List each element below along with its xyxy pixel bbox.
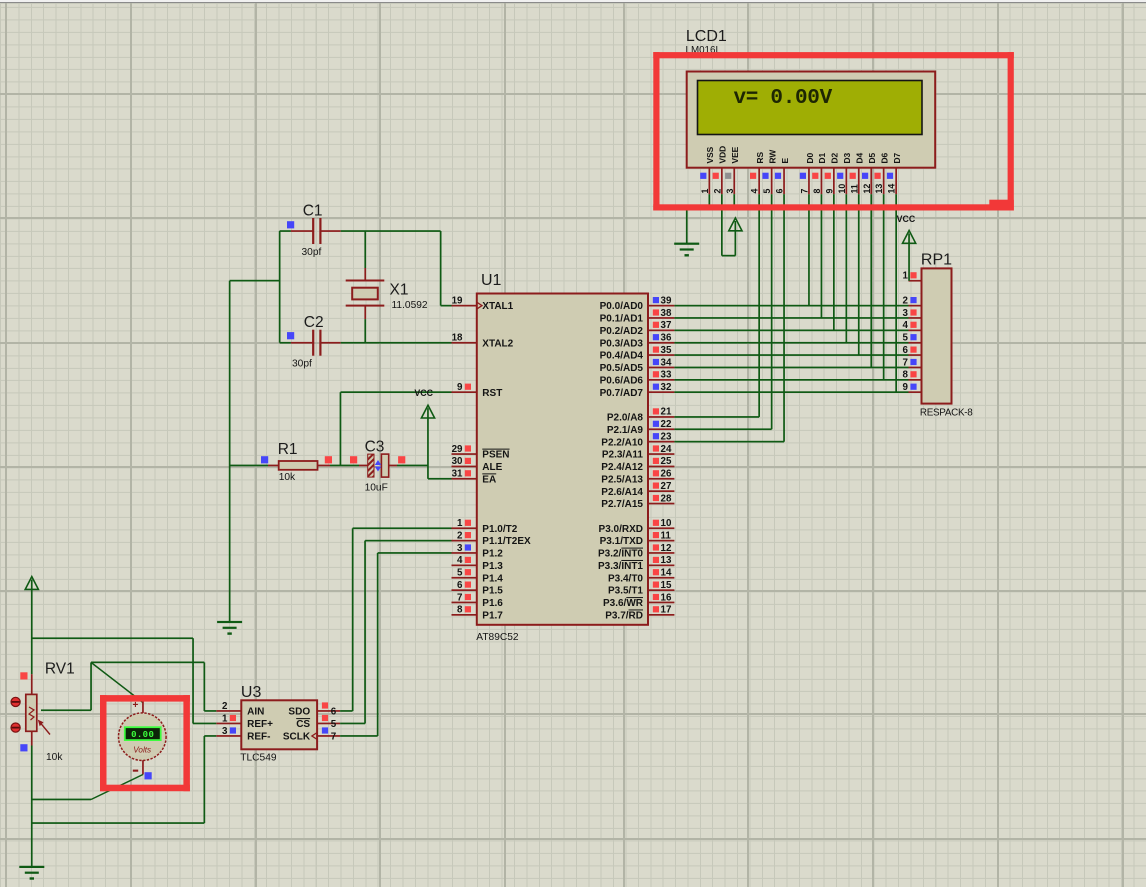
svg-text:3: 3 [222, 726, 228, 737]
svg-text:32: 32 [661, 382, 672, 393]
svg-text:5: 5 [331, 719, 337, 730]
svg-text:D0: D0 [805, 152, 815, 163]
svg-text:18: 18 [452, 333, 463, 344]
svg-text:8: 8 [812, 189, 822, 194]
svg-text:31: 31 [452, 469, 463, 480]
svg-text:0.00: 0.00 [131, 730, 154, 740]
svg-text:RW: RW [767, 150, 777, 164]
svg-text:10k: 10k [46, 752, 63, 763]
svg-text:28: 28 [661, 493, 672, 504]
svg-text:P1.6: P1.6 [482, 598, 503, 609]
svg-text:SCLK: SCLK [283, 732, 311, 743]
svg-text:2: 2 [222, 701, 228, 712]
svg-text:24: 24 [661, 444, 672, 455]
svg-text:19: 19 [452, 295, 463, 306]
svg-text:C2: C2 [304, 314, 324, 331]
svg-text:R1: R1 [278, 441, 298, 458]
svg-text:P2.1/A9: P2.1/A9 [607, 425, 644, 436]
svg-text:7: 7 [331, 731, 337, 742]
svg-text:P0.4/AD4: P0.4/AD4 [600, 351, 644, 362]
svg-text:P0.7/AD7: P0.7/AD7 [600, 388, 644, 399]
svg-text:XTAL2: XTAL2 [482, 338, 513, 349]
svg-text:34: 34 [661, 357, 672, 368]
svg-text:D7: D7 [892, 152, 902, 163]
svg-text:36: 36 [661, 333, 672, 344]
svg-text:6: 6 [457, 580, 463, 591]
svg-text:6: 6 [775, 189, 785, 194]
svg-text:P0.5/AD5: P0.5/AD5 [600, 363, 644, 374]
svg-text:AIN: AIN [247, 707, 264, 718]
svg-text:7: 7 [903, 357, 909, 368]
svg-text:5: 5 [762, 189, 772, 194]
svg-text:EA: EA [482, 474, 496, 485]
svg-text:3: 3 [457, 543, 463, 554]
svg-text:23: 23 [661, 431, 672, 442]
svg-text:P1.2: P1.2 [482, 549, 503, 560]
svg-text:P1.0/T2: P1.0/T2 [482, 524, 517, 535]
svg-text:22: 22 [661, 419, 672, 430]
svg-text:1: 1 [700, 189, 710, 194]
svg-text:D6: D6 [880, 152, 890, 163]
svg-text:16: 16 [661, 592, 672, 603]
svg-text:30pf: 30pf [292, 359, 312, 370]
svg-text:P3.5/T1: P3.5/T1 [608, 586, 643, 597]
svg-text:P3.4/T0: P3.4/T0 [608, 573, 643, 584]
svg-text:2: 2 [903, 295, 909, 306]
svg-text:REF+: REF+ [247, 719, 273, 730]
svg-text:P0.0/AD0: P0.0/AD0 [600, 301, 644, 312]
svg-text:VDD: VDD [718, 146, 728, 164]
svg-text:17: 17 [661, 605, 672, 616]
svg-text:7: 7 [457, 592, 463, 603]
svg-text:P0.2/AD2: P0.2/AD2 [600, 326, 644, 337]
svg-text:12: 12 [862, 184, 872, 194]
svg-text:9: 9 [903, 382, 909, 393]
svg-text:P2.4/A12: P2.4/A12 [601, 462, 643, 473]
svg-text:P1.7: P1.7 [482, 610, 503, 621]
svg-text:8: 8 [903, 370, 909, 381]
svg-text:13: 13 [874, 184, 884, 194]
svg-text:P2.7/A15: P2.7/A15 [601, 499, 643, 510]
svg-text:10uF: 10uF [365, 483, 388, 494]
svg-text:D5: D5 [867, 152, 877, 163]
svg-text:10: 10 [837, 184, 847, 194]
svg-text:P2.5/A13: P2.5/A13 [601, 474, 643, 485]
svg-text:VCC: VCC [414, 388, 433, 398]
svg-text:REF-: REF- [247, 732, 270, 743]
svg-text:U1: U1 [481, 272, 502, 289]
svg-text:P3.6/WR: P3.6/WR [603, 598, 644, 609]
svg-text:14: 14 [661, 568, 672, 579]
svg-text:D2: D2 [830, 152, 840, 163]
svg-text:RESPACK-8: RESPACK-8 [920, 408, 973, 419]
svg-text:7: 7 [800, 189, 810, 194]
svg-text:3: 3 [903, 308, 909, 319]
svg-text:VCC: VCC [897, 214, 916, 224]
svg-text:D4: D4 [855, 152, 865, 163]
svg-text:XTAL1: XTAL1 [482, 301, 513, 312]
svg-text:21: 21 [661, 407, 672, 418]
svg-text:X1: X1 [390, 282, 409, 299]
svg-text:39: 39 [661, 295, 672, 306]
svg-text:11: 11 [849, 184, 859, 193]
svg-text:2: 2 [457, 530, 463, 541]
svg-text:P0.1/AD1: P0.1/AD1 [600, 314, 644, 325]
svg-text:P1.4: P1.4 [482, 573, 503, 584]
svg-text:38: 38 [661, 308, 672, 319]
svg-text:P2.6/A14: P2.6/A14 [601, 487, 643, 498]
svg-text:RS: RS [755, 151, 765, 163]
svg-text:P1.5: P1.5 [482, 586, 503, 597]
svg-text:P3.0/RXD: P3.0/RXD [599, 524, 643, 535]
svg-text:P0.3/AD3: P0.3/AD3 [600, 338, 644, 349]
svg-text:25: 25 [661, 456, 672, 467]
svg-text:P2.2/A10: P2.2/A10 [601, 437, 643, 448]
svg-text:AT89C52: AT89C52 [476, 632, 519, 643]
svg-text:VEE: VEE [730, 146, 740, 163]
svg-text:P0.6/AD6: P0.6/AD6 [600, 375, 644, 386]
svg-text:C1: C1 [303, 203, 323, 220]
svg-text:35: 35 [661, 345, 672, 356]
svg-text:LCD1: LCD1 [686, 28, 727, 45]
svg-text:P3.3/INT1: P3.3/INT1 [598, 561, 643, 572]
svg-text:2: 2 [712, 189, 722, 194]
svg-text:12: 12 [661, 543, 672, 554]
svg-text:1: 1 [457, 518, 463, 529]
svg-text:13: 13 [661, 555, 672, 566]
svg-text:P2.3/A11: P2.3/A11 [602, 450, 644, 461]
svg-text:PSEN: PSEN [482, 450, 509, 461]
svg-text:4: 4 [903, 320, 909, 331]
svg-text:D1: D1 [817, 152, 827, 163]
svg-text:P1.3: P1.3 [482, 561, 503, 572]
svg-text:RST: RST [482, 388, 502, 399]
svg-text:8: 8 [457, 605, 463, 616]
svg-text:SDO: SDO [288, 707, 310, 718]
svg-text:30pf: 30pf [302, 247, 322, 258]
svg-text:C3: C3 [365, 439, 385, 456]
svg-text:Volts: Volts [133, 746, 151, 755]
svg-text:11.0592: 11.0592 [392, 300, 428, 311]
svg-text:30: 30 [452, 456, 463, 467]
svg-text:P1.1/T2EX: P1.1/T2EX [482, 536, 531, 547]
svg-text:37: 37 [661, 320, 672, 331]
svg-text:26: 26 [661, 469, 672, 480]
svg-text:15: 15 [661, 580, 672, 591]
svg-text:9: 9 [824, 189, 834, 194]
svg-text:RV1: RV1 [45, 661, 75, 678]
svg-text:6: 6 [331, 706, 337, 717]
svg-text:RP1: RP1 [921, 251, 952, 268]
svg-text:1: 1 [222, 713, 228, 724]
svg-text:27: 27 [661, 481, 672, 492]
svg-text:3: 3 [725, 189, 735, 194]
svg-text:E: E [780, 158, 790, 164]
svg-text:P3.2/INT0: P3.2/INT0 [598, 549, 643, 560]
svg-text:4: 4 [457, 555, 463, 566]
svg-text:6: 6 [903, 345, 909, 356]
svg-text:14: 14 [887, 184, 897, 194]
svg-text:P2.0/A8: P2.0/A8 [607, 413, 644, 424]
svg-text:5: 5 [457, 568, 463, 579]
svg-text:ALE: ALE [482, 462, 502, 473]
svg-text:9: 9 [457, 382, 463, 393]
svg-text:TLC549: TLC549 [240, 753, 277, 764]
svg-text:5: 5 [903, 333, 909, 344]
svg-text:11: 11 [661, 530, 672, 541]
svg-text:D3: D3 [842, 152, 852, 163]
svg-text:P3.7/RD: P3.7/RD [605, 610, 643, 621]
svg-text:v= 0.00V: v= 0.00V [734, 87, 833, 110]
svg-text:U3: U3 [241, 684, 262, 701]
svg-text:10: 10 [661, 518, 672, 529]
svg-text:P3.1/TXD: P3.1/TXD [600, 536, 643, 547]
svg-text:1: 1 [903, 271, 909, 282]
svg-text:33: 33 [661, 370, 672, 381]
svg-text:29: 29 [452, 444, 463, 455]
svg-text:10k: 10k [279, 472, 296, 483]
svg-text:4: 4 [750, 189, 760, 194]
svg-text:CS: CS [296, 719, 310, 730]
svg-text:VSS: VSS [705, 146, 715, 163]
